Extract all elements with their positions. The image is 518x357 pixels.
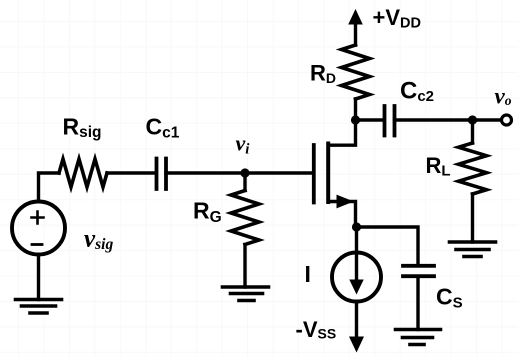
plus sign bbox=[32, 212, 44, 224]
wire source node to CS bbox=[357, 227, 419, 266]
VSS arrow bbox=[349, 337, 364, 353]
wire drain node to Cc2 bbox=[356, 118, 385, 121]
transistor Q1 source lead bbox=[328, 202, 355, 228]
node drain bbox=[351, 115, 360, 124]
capacitor CS bbox=[403, 266, 434, 276]
ground under RL bbox=[450, 242, 496, 257]
transistor Q1 source arrowhead bbox=[337, 195, 354, 209]
wire CS to ground bbox=[416, 276, 419, 329]
resistor RL bbox=[459, 143, 487, 194]
voltage source VSIG bbox=[12, 202, 65, 255]
node source bbox=[352, 222, 361, 231]
svg-text:I: I bbox=[305, 261, 311, 287]
wire RL to ground bbox=[471, 194, 474, 242]
wire RG to ground bbox=[243, 245, 246, 288]
wire current source to VSS bbox=[355, 302, 358, 338]
resistor RD bbox=[342, 45, 370, 99]
wire RD top to VDD bbox=[354, 23, 357, 45]
resistor RG bbox=[231, 191, 259, 245]
transistor Q1 gate bar bbox=[312, 145, 316, 203]
wire vo node to RL bbox=[471, 120, 474, 143]
transistor Q1 drain lead bbox=[328, 120, 355, 145]
minus sign bbox=[32, 243, 42, 246]
ground under source bbox=[16, 300, 62, 314]
capacitor Cc2 bbox=[385, 106, 395, 136]
capacitor Cc1 bbox=[157, 159, 167, 190]
wire source top to Rsig bbox=[39, 173, 60, 202]
ground under RG bbox=[223, 287, 269, 301]
current source I circle bbox=[332, 253, 381, 302]
current source arrowhead bbox=[349, 280, 363, 295]
terminal vo bbox=[502, 115, 512, 125]
current source arrow shaft bbox=[355, 227, 358, 281]
node vi bbox=[240, 168, 249, 177]
wire Cc1 to gate bbox=[166, 171, 313, 174]
wire RD bottom bbox=[354, 99, 357, 120]
wire vi to RG bbox=[243, 173, 246, 191]
ground under CS bbox=[396, 330, 441, 345]
node vo bbox=[468, 115, 477, 124]
VDD arrow bbox=[348, 9, 363, 25]
wire Rsig to Cc1 bbox=[107, 171, 156, 174]
wire source bottom to ground bbox=[37, 255, 40, 300]
transistor Q1 channel bar bbox=[326, 144, 330, 203]
resistor Rsig bbox=[59, 159, 107, 187]
wire Cc2 to vo bbox=[395, 118, 501, 121]
